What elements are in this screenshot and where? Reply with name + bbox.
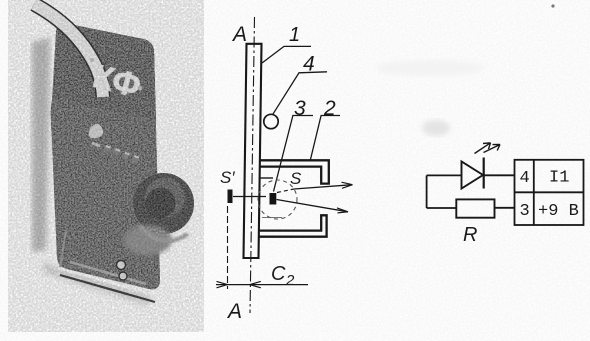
light emission arrow b <box>484 145 501 153</box>
wire: anode to left rail <box>427 174 462 176</box>
darker top band <box>53 23 156 120</box>
extension line from S' <box>227 206 229 289</box>
dimension line C2 <box>216 284 308 286</box>
resistor R <box>456 199 494 217</box>
device body <box>51 23 160 290</box>
LED cathode bar <box>483 158 485 189</box>
shadow line under bottom edge <box>58 268 152 294</box>
S' mark <box>228 190 233 204</box>
knob (lens) <box>133 173 194 234</box>
background shadow left of device <box>32 38 50 252</box>
scratches / marks <box>89 124 103 138</box>
hole (part 4) <box>264 114 278 128</box>
wire: resistor to pin 3 <box>495 207 515 209</box>
light background speckle <box>8 0 204 332</box>
line from S' mark through panel <box>233 196 266 198</box>
IC box I1 <box>515 160 584 225</box>
grain on device body <box>40 10 210 310</box>
light emission arrow a <box>475 143 491 154</box>
emitter (part 3) <box>270 193 277 205</box>
bottom inner highlight line <box>70 262 146 284</box>
cable <box>34 4 103 97</box>
bracket lower arm <box>260 215 327 236</box>
upper light ray <box>277 189 294 193</box>
emitter support lines <box>260 177 274 179</box>
panel (part 1) <box>244 44 262 258</box>
wire: left rail to resistor <box>427 207 457 209</box>
LED D1 triangle <box>462 162 484 189</box>
centre line A-A <box>250 17 255 313</box>
bracket upper arm (part 2) <box>260 160 329 183</box>
screws bottom <box>117 261 126 270</box>
wire: left rail vertical <box>426 175 428 208</box>
lower light ray <box>277 200 349 212</box>
wire: cathode to pin 4 <box>484 174 515 176</box>
dashed circle (light spot) <box>258 180 297 219</box>
